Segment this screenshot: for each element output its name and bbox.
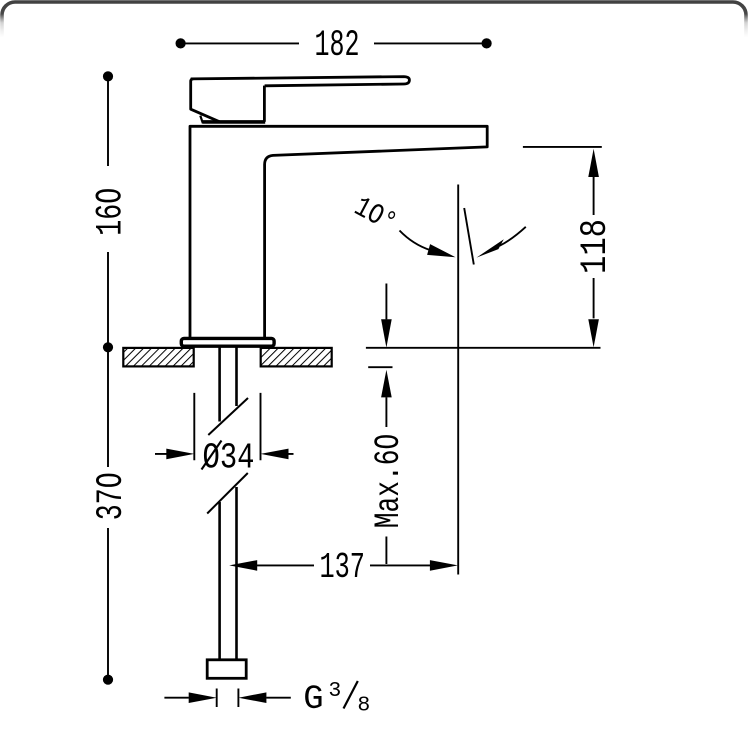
arrow arc right	[477, 239, 504, 257]
svg-text:182: 182	[315, 25, 360, 67]
faucet body and spout outline	[190, 126, 487, 338]
countertop left hatched section	[123, 348, 193, 367]
arrow max60 down	[381, 319, 392, 347]
max60 tick	[368, 366, 392, 368]
handle stem vertical	[263, 86, 266, 122]
arrow o34 left	[261, 449, 289, 460]
arc right of 10deg	[500, 227, 526, 246]
diameter slash through O	[202, 441, 222, 470]
stream axis vertical line	[457, 185, 459, 575]
dim left vertical line (160/370)	[107, 76, 109, 680]
dim o34 leader lines	[155, 453, 294, 455]
arc left of 10deg	[400, 231, 431, 251]
dim G3/8 line	[164, 697, 290, 699]
pipe break slash upper	[208, 398, 248, 435]
dim 182 line	[181, 42, 487, 44]
dim o34 extension lines	[194, 393, 260, 460]
countertop right hatched section	[261, 348, 332, 367]
connector nut G3/8	[207, 660, 246, 679]
dot 182 right	[482, 38, 492, 48]
svg-text:37O: 37O	[91, 472, 133, 520]
arrow 137 left	[229, 560, 257, 571]
svg-text:8: 8	[357, 694, 370, 718]
dot 182 left	[176, 38, 186, 48]
dim 118 top tick	[523, 146, 602, 148]
dim 137 line	[257, 564, 430, 566]
arrow 118 up	[588, 149, 599, 177]
arrow o34 right	[166, 449, 194, 460]
handle bottom bar	[203, 120, 266, 124]
dim 118 vertical line	[593, 177, 595, 318]
base flange	[181, 338, 274, 346]
svg-text:G: G	[303, 681, 323, 719]
counter reference line	[366, 347, 601, 349]
faucet handle lever	[191, 77, 410, 86]
svg-text:Max.6O: Max.6O	[369, 434, 409, 529]
arrow g38 left	[238, 692, 266, 703]
arrow 137 right	[430, 560, 458, 571]
max60 upper leader	[385, 284, 387, 320]
max60 lower leader	[385, 397, 387, 564]
fraction slash of 3/8	[344, 681, 358, 709]
handle chamfer inner line	[200, 116, 203, 124]
arrow g38 right	[189, 692, 217, 703]
svg-text:3: 3	[328, 679, 341, 703]
dot left top	[103, 71, 113, 81]
svg-text:137: 137	[319, 547, 365, 588]
stream tilted line 10deg	[464, 208, 474, 265]
arrow arc left	[427, 244, 455, 257]
arrow 118 down	[588, 319, 599, 347]
dot left middle	[103, 342, 113, 352]
pipe upper segment	[220, 347, 237, 422]
svg-text:118: 118	[575, 219, 617, 274]
pipe lower segment	[220, 487, 237, 660]
dot left bottom	[103, 675, 113, 685]
dim G3/8 ticks	[217, 689, 239, 708]
svg-text:16O: 16O	[91, 188, 133, 236]
faucet handle left block	[191, 79, 221, 122]
arrow max60 up	[381, 370, 392, 398]
pipe break slash lower	[207, 473, 248, 514]
